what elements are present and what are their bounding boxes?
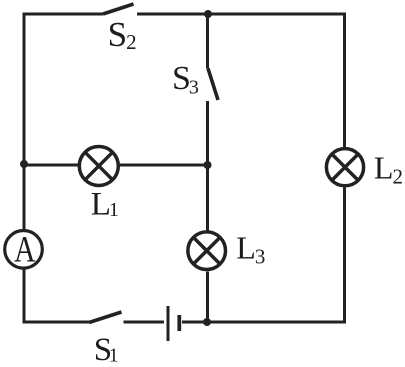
wire bottom-right horizontal (battery to bottom-right corner) [182, 321, 346, 324]
lamp L1 symbol [79, 147, 118, 186]
svg-text:A: A [14, 229, 35, 270]
lamp L2 symbol [326, 149, 363, 186]
wire top-left horizontal (corner to S2) [23, 13, 104, 16]
wire middle horizontal right (lamp L1 to middle junction) [120, 164, 208, 167]
lamp L3 symbol [188, 232, 226, 270]
wire middle horizontal left (left junction to lamp L1) [24, 164, 79, 167]
svg-text:S2: S2 [108, 15, 137, 54]
node: top junction (middle branch / top wire) [204, 10, 212, 18]
wire middle branch lower (lamp L3 to bottom junction) [206, 272, 209, 323]
wire left vertical upper (top-left corner to ammeter) [23, 13, 26, 231]
svg-text:L2: L2 [374, 149, 403, 188]
switch S1 blade [89, 312, 122, 323]
battery cell short plate (negative) [177, 315, 181, 331]
wire right vertical upper (top-right corner to lamp L2) [343, 13, 346, 148]
svg-text:S3: S3 [172, 60, 199, 99]
battery cell long plate (positive) [167, 306, 170, 341]
wire bottom middle horizontal (S1 to battery) [124, 321, 165, 324]
wire right vertical lower (lamp L2 to bottom-right corner) [343, 188, 346, 324]
node: middle junction (middle wire / middle branch) [204, 161, 212, 169]
svg-text:S1: S1 [94, 332, 119, 367]
wire middle branch mid (S3 to lamp L3) [206, 101, 209, 231]
wire bottom-left horizontal (corner to S1) [23, 321, 90, 324]
svg-text:L3: L3 [236, 230, 265, 269]
wire middle branch upper (top junction to S3) [206, 14, 209, 69]
ammeter A1 circle [5, 231, 43, 269]
switch S2 blade [103, 4, 134, 14]
wire top-right horizontal (S2 to top-right corner) [137, 13, 346, 16]
wire left vertical lower (ammeter to bottom-left corner) [23, 268, 26, 324]
svg-text:L1: L1 [91, 187, 119, 223]
switch S3 blade [208, 69, 218, 101]
node: left junction (middle wire / left wire) [20, 160, 28, 168]
node: bottom junction (middle branch / bottom wire) [203, 318, 211, 326]
